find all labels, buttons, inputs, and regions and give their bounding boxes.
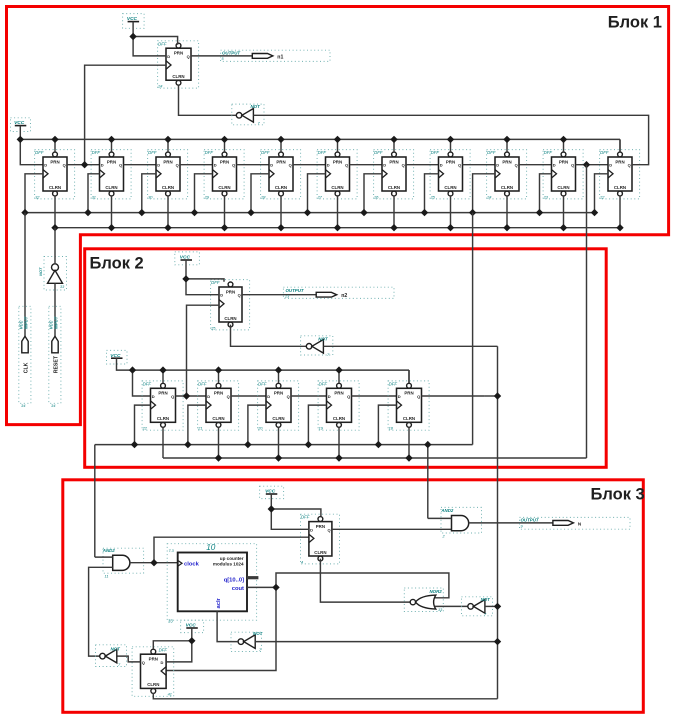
svg-text:11: 11 <box>105 575 109 579</box>
svg-text:PRN: PRN <box>559 159 568 164</box>
svg-text:DFF: DFF <box>92 150 101 155</box>
wire: NOT N3 input from Q17 <box>323 345 497 347</box>
junction: PRN rail Block2 at DFF14 <box>215 366 222 373</box>
svg-text:D: D <box>270 163 273 168</box>
svg-text:23: 23 <box>284 295 290 299</box>
wire: Q9 to D10 <box>519 164 552 166</box>
svg-text:Q: Q <box>287 394 290 399</box>
input pin CLK <box>19 306 31 408</box>
svg-text:NOT: NOT <box>481 597 491 602</box>
svg-text:DFF: DFF <box>318 150 327 155</box>
junction: AND2 A1 output node <box>150 559 157 566</box>
svg-text:PRN: PRN <box>502 159 511 164</box>
svg-text:24: 24 <box>157 84 163 89</box>
wire: PRN stub DFF15 <box>278 370 280 383</box>
svg-text:D: D <box>398 394 401 399</box>
svg-text:D: D <box>214 163 217 168</box>
svg-text:PRN: PRN <box>274 391 283 396</box>
junction: CLRN rail Block2 at DFF15 <box>275 454 282 461</box>
junction: Q17 net at NOT N5 <box>494 603 501 610</box>
svg-text:NOT: NOT <box>318 337 328 342</box>
svg-text:34: 34 <box>51 403 56 408</box>
wire: D1 feed from VCC <box>20 139 43 164</box>
junction: clock rail at DFF9 <box>469 209 476 216</box>
wire: cout branch down to DFF20 clock <box>166 587 276 670</box>
wire: Q3 to D4 <box>180 164 213 166</box>
svg-text:CLK: CLK <box>24 362 30 373</box>
junction: PRN rail at DFF10 <box>560 136 567 143</box>
wire: Q7 to D8 <box>406 164 439 166</box>
junction: PRN rail Block2 at DFF16 <box>335 366 342 373</box>
wire: VCC V6 to PRN of DFF20 <box>153 641 192 649</box>
junction: PRN rail at DFF8 <box>447 136 454 143</box>
wire: clock feed DFF10 <box>540 174 552 213</box>
svg-text:Q: Q <box>187 54 190 59</box>
wire: Q4 to D5 <box>237 164 270 166</box>
junction: clock rail at DFF11 <box>591 209 598 216</box>
svg-text:Q: Q <box>417 394 420 399</box>
svg-text:n1: n1 <box>277 54 283 60</box>
flip-flop DFF10 (Block1 row) <box>543 150 584 200</box>
flip-flop DFF5 (Block1 row) <box>260 150 301 200</box>
junction: CLRN rail Block2 at DFF16 <box>335 454 342 461</box>
wire: VCC V5 to D of DFF19 <box>271 509 309 529</box>
svg-text:D: D <box>327 163 330 168</box>
inverter N4 (Block3 center, drives counter aclr) <box>231 631 263 652</box>
junction: VCC V6 node <box>188 637 195 644</box>
wire: clock feed DFF15 <box>248 405 266 445</box>
wire: Q13 to D14 <box>176 395 207 397</box>
svg-text:clock: clock <box>184 562 200 568</box>
svg-text:CLRN: CLRN <box>172 74 184 79</box>
junction: VCC V2 node <box>129 33 136 40</box>
svg-text:NOR2: NOR2 <box>430 589 443 594</box>
inverter N6 (Block3 bottom-left) <box>96 645 127 667</box>
wire: DFF18 clock from Q13 <box>187 305 220 396</box>
power VCC V3 (feeds DFF18) <box>175 252 200 279</box>
wire: CLRN stub DFF5 <box>280 196 282 228</box>
wire: CLRN stub DFF13 <box>162 427 164 458</box>
svg-text:PRN: PRN <box>446 159 455 164</box>
wire: PRN rail Block2 (VCC net) <box>133 370 410 383</box>
svg-text:q[10..0]: q[10..0] <box>224 577 244 583</box>
wire: VCC V6 to D of DFF20 <box>166 641 192 662</box>
wire: PRN stub DFF11 <box>619 139 621 152</box>
junction: CLRN rail Block2 at DFF17 <box>405 454 412 461</box>
junction: clock rail Block2 at DFF13 <box>131 441 138 448</box>
wire: DFF18 CLRN to NOT N3 output <box>231 325 307 347</box>
svg-text:Блок 3: Блок 3 <box>591 486 645 504</box>
wire: DFF20 CLRN from Q17 net <box>153 693 497 699</box>
wire: AND2 A2 output to pin N <box>469 522 553 524</box>
wire: clock feed DFF9 <box>473 174 495 213</box>
svg-text:Q: Q <box>289 163 292 168</box>
wire: CLRN rail Block1 <box>55 227 620 229</box>
wire: clock feed DFF3 <box>142 174 156 213</box>
flip-flop DFF19 (Block3 top) <box>301 514 340 564</box>
junction: CLRN rail at DFF5 <box>277 224 284 231</box>
svg-text:DFF: DFF <box>258 381 267 386</box>
svg-text:D: D <box>220 293 223 298</box>
svg-text:DFF: DFF <box>487 150 496 155</box>
svg-text:20: 20 <box>257 426 263 431</box>
svg-text:PRN: PRN <box>50 159 59 164</box>
junction: VCC V1 / PRN rail / D1 <box>17 136 24 143</box>
svg-text:D: D <box>267 394 270 399</box>
wire: Q10 net descent (x=586.5) to Block2 CLRN rail <box>586 165 588 458</box>
svg-text:D: D <box>383 163 386 168</box>
svg-text:Q: Q <box>227 394 230 399</box>
wire: PRN stub DFF5 <box>280 139 282 152</box>
flip-flop DFF17 (Block2 row) <box>388 381 429 431</box>
junction: clock rail Block2 at DFF15 <box>244 441 251 448</box>
svg-text:Q: Q <box>142 660 145 665</box>
flip-flop DFF3 (Block1 row) <box>148 150 188 200</box>
flip-flop DFF14 (Block2 row) <box>197 381 239 431</box>
output pin n2 <box>242 287 394 299</box>
nor gate NOR1 (NOR2, mirrored, drives DFF19 CLRN) <box>404 588 443 612</box>
wire: Q2 to D3 <box>124 164 157 166</box>
svg-text:DFF: DFF <box>148 150 157 155</box>
svg-text:PRN: PRN <box>404 391 413 396</box>
block border: Блок 1 (L-shape) <box>7 7 669 425</box>
svg-text:D: D <box>207 394 210 399</box>
wire: Q6 to D7 <box>350 164 383 166</box>
and gate A2 (AND2, Block3 right, drives output) <box>440 507 481 538</box>
wire: D feed DFF13 from VCC <box>133 370 151 396</box>
junction: clock rail at DFF1 <box>21 209 28 216</box>
svg-text:CLRN: CLRN <box>614 185 626 190</box>
svg-text:Q: Q <box>232 163 235 168</box>
svg-text:CLRN: CLRN <box>275 185 287 190</box>
svg-text:10: 10 <box>206 543 216 552</box>
junction: clock rail Block2 at DFF17 <box>375 441 382 448</box>
svg-text:DFF: DFF <box>35 150 44 155</box>
wire: NOT N1 input from Q11 <box>253 115 648 164</box>
wire: CLRN stub DFF9 <box>506 196 508 228</box>
svg-text:D: D <box>157 163 160 168</box>
svg-text:Q: Q <box>63 163 66 168</box>
svg-text:Q: Q <box>345 163 348 168</box>
wire: clock feed DFF17 <box>378 405 396 445</box>
svg-text:DFF: DFF <box>301 515 310 520</box>
svg-text:RESET: RESET <box>54 355 60 373</box>
svg-text:Q: Q <box>571 163 574 168</box>
junction: clock rail at DFF5 <box>247 209 254 216</box>
svg-text:22: 22 <box>142 426 148 431</box>
svg-text:NOT: NOT <box>38 267 43 276</box>
junction: CLRN rail at DFF7 <box>390 224 397 231</box>
svg-text:DFF: DFF <box>143 381 152 386</box>
wire: CLK net descent (x=472.6) from DFF9 clock into Block2 clock rail <box>472 213 474 445</box>
wire: VCC V2 to PRN of DFF12 <box>133 37 178 45</box>
wire: PRN stub DFF2 <box>111 139 113 152</box>
wire: clock rail left end descent to Block3 (x=94.8) <box>94 445 96 557</box>
svg-text:CLRN: CLRN <box>49 185 61 190</box>
svg-text:CLRN: CLRN <box>333 416 345 421</box>
wire: RESET to NOT N2 input <box>54 283 56 336</box>
junction: clock rail at DFF6 <box>304 209 311 216</box>
flip-flop DFF20 (Block3 bottom, mirrored) <box>132 647 174 697</box>
junction: PRN rail at DFF2 <box>108 136 115 143</box>
svg-text:Блок 2: Блок 2 <box>90 254 144 272</box>
wire: Q17 node riser/descent (x=497.5) <box>422 346 498 699</box>
junction: CLRN rail at DFF4 <box>221 224 228 231</box>
svg-text:NOT: NOT <box>251 104 261 109</box>
svg-text:CLRN: CLRN <box>157 416 169 421</box>
wire: clock feed DFF8 <box>425 174 439 213</box>
wire: PRN stub DFF1 <box>54 139 56 152</box>
svg-text:PRN: PRN <box>174 51 183 56</box>
counter U10 (lpm up counter modulus 400) <box>167 543 256 623</box>
junction: VCC V3 node <box>182 275 189 282</box>
wire: Q8 to D9 <box>463 164 496 166</box>
junction: PRN rail at DFF6 <box>334 136 341 143</box>
svg-text:Q: Q <box>515 163 518 168</box>
wire: PRN stub DFF7 <box>393 139 395 152</box>
svg-text:D: D <box>152 394 155 399</box>
svg-text:PRN: PRN <box>149 657 158 662</box>
svg-text:PRN: PRN <box>226 289 235 294</box>
svg-text:D: D <box>496 163 499 168</box>
junction: clock rail at DFF8 <box>421 209 428 216</box>
junction: CLRN rail Block2 at DFF14 <box>215 454 222 461</box>
svg-text:33: 33 <box>168 619 173 624</box>
flip-flop DFF16 (Block2 row) <box>318 381 359 431</box>
wire: VCC V5 to PRN of DFF19 <box>271 509 321 516</box>
svg-text:CLRN: CLRN <box>388 185 400 190</box>
flip-flop DFF6 (Block1 row) <box>317 150 358 200</box>
junction: PRN rail at DFF7 <box>390 136 397 143</box>
wire: cout to junction <box>247 586 276 588</box>
svg-text:DFF: DFF <box>198 381 207 386</box>
wire: DFF12 clock from Q1 <box>85 65 166 165</box>
wire: NOR1 lower input from NOT N5 <box>435 605 468 607</box>
svg-text:D: D <box>161 660 164 665</box>
flip-flop DFF13 (Block2 row) <box>142 381 184 431</box>
inverter N1 (Block1 top, feedback from Q11) <box>232 104 264 125</box>
junction: PRN rail Block2 at DFF15 <box>275 366 282 373</box>
junction: PRN rail at DFF5 <box>277 136 284 143</box>
wire label tick on CLK tap <box>425 466 429 470</box>
junction: PRN rail at DFF9 <box>503 136 510 143</box>
junction: CLRN rail at DFF9 <box>503 224 510 231</box>
svg-text:INPUT: INPUT <box>23 316 28 329</box>
wire: VCC V3 to PRN of DFF18 <box>186 279 224 282</box>
svg-text:aclr: aclr <box>216 597 222 608</box>
wire: CLRN stub DFF6 <box>337 196 339 228</box>
svg-text:23: 23 <box>543 194 549 199</box>
wire: CLK input riser <box>24 213 26 337</box>
svg-text:DFF: DFF <box>431 150 440 155</box>
wire: clock feed DFF11 <box>595 174 609 213</box>
wire: Q10 to D11 <box>576 164 609 166</box>
svg-text:27: 27 <box>317 194 323 199</box>
wire: PRN stub DFF16 <box>338 370 340 383</box>
svg-text:PRN: PRN <box>163 159 172 164</box>
svg-text:PRN: PRN <box>333 159 342 164</box>
wire: clock feed DFF7 <box>364 174 382 213</box>
svg-text:PRN: PRN <box>389 159 398 164</box>
wire: AND2 A1 output up to DFF19 clock <box>154 537 309 563</box>
junction: CLRN rail at DFF6 <box>334 224 341 231</box>
svg-text:Q: Q <box>238 293 241 298</box>
wire: cout branch up/right to NOR gate input <box>276 573 449 598</box>
junction: clock rail at DFF3 <box>138 209 145 216</box>
wire: CLRN stub DFF11 <box>619 196 621 228</box>
flip-flop DFF11 (Block1 row) <box>599 150 640 200</box>
svg-text:29: 29 <box>204 194 210 199</box>
svg-text:Q: Q <box>171 394 174 399</box>
svg-text:D: D <box>440 163 443 168</box>
flip-flop DFF1 (Block1 row) <box>35 150 75 200</box>
wire: PRN stub DFF17 <box>408 370 410 383</box>
wire: PRN stub DFF8 <box>450 139 452 152</box>
svg-text:D: D <box>310 527 313 532</box>
svg-text:CLRN: CLRN <box>162 185 174 190</box>
svg-text:DFF: DFF <box>374 150 383 155</box>
wire: CLRN stub DFF8 <box>450 196 452 228</box>
svg-text:D: D <box>553 163 556 168</box>
wire: DFF12 CLRN to NOT N1 output <box>179 85 237 115</box>
svg-text:DFF: DFF <box>158 41 167 46</box>
power VCC V4 (feeds PRN rail Block2) <box>107 350 133 370</box>
svg-text:AND2: AND2 <box>440 508 454 513</box>
junction: PRN rail at DFF1 <box>51 136 58 143</box>
junction: Q17 net at NOT N4 <box>494 638 501 645</box>
wire: CLRN rail Block2 (Q10 net) <box>163 457 587 459</box>
wire: PRN stub DFF14 <box>218 370 220 383</box>
wire: CLK into AND2 A1 top input <box>95 556 113 558</box>
svg-text:7.3: 7.3 <box>169 549 175 553</box>
power VCC V2 (top, feeds DFF12) <box>123 14 145 37</box>
svg-text:OUTPUT: OUTPUT <box>521 518 539 523</box>
svg-text:Q: Q <box>628 163 631 168</box>
junction: Q1 wire tap for DFF12 clock <box>81 161 88 168</box>
svg-text:CLRN: CLRN <box>501 185 513 190</box>
wire: CLRN stub DFF4 <box>224 196 226 228</box>
junction: Q13 wire tap for DFF18 clock <box>183 392 190 399</box>
output pin n1 <box>191 50 330 61</box>
svg-text:31: 31 <box>92 194 96 199</box>
wire: Q5 to D6 <box>293 164 326 166</box>
junction: CLRN rail at DFF8 <box>447 224 454 231</box>
block border: Блок 2 <box>85 249 607 467</box>
wire: DFF19 Q to AND2 A2 input <box>332 528 452 530</box>
svg-text:DFF: DFF <box>159 647 168 652</box>
wire: PRN stub DFF3 <box>167 139 169 152</box>
wire: PRN stub DFF10 <box>563 139 565 152</box>
svg-text:CLRN: CLRN <box>314 550 326 555</box>
wire: clock rail Block2 <box>95 444 473 446</box>
svg-text:DFF: DFF <box>389 381 398 386</box>
input pin RESET <box>49 306 61 408</box>
wire: clock feed DFF6 <box>308 174 326 213</box>
wire: clock feed DFF16 <box>308 405 326 445</box>
svg-text:CLRN: CLRN <box>444 185 456 190</box>
wire: VCC V2 to D of DFF12 <box>133 37 166 56</box>
wire: Q15 to D16 <box>291 395 327 397</box>
svg-text:CLRN: CLRN <box>403 416 415 421</box>
svg-text:D: D <box>167 54 170 59</box>
flip-flop DFF2 (Block1 row) <box>91 150 131 200</box>
svg-text:28: 28 <box>260 194 266 199</box>
wire: AND2 A1 output to counter clock <box>130 562 178 564</box>
wire: CLRN stub DFF10 <box>563 196 565 228</box>
wire: CLRN stub DFF2 <box>111 196 113 228</box>
wire: clock feed DFF4 <box>195 174 213 213</box>
svg-text:NOT: NOT <box>111 646 121 651</box>
svg-text:Блок 1: Блок 1 <box>608 14 662 32</box>
wire: CLRN stub DFF17 <box>408 427 410 458</box>
wire: PRN stub DFF9 <box>506 139 508 152</box>
wire: CLRN stub DFF16 <box>338 427 340 458</box>
svg-text:25: 25 <box>210 325 216 330</box>
svg-text:DFF: DFF <box>319 381 328 386</box>
svg-text:CLRN: CLRN <box>557 185 569 190</box>
wire: CLRN stub DFF15 <box>278 427 280 458</box>
junction: PRN rail at DFF3 <box>164 136 171 143</box>
wire: DFF19 CLRN from NOR output <box>320 559 410 603</box>
wire: PRN stub DFF13 <box>162 370 164 383</box>
svg-text:VCC: VCC <box>19 319 24 329</box>
wire: clock feed DFF2 <box>88 174 100 213</box>
junction: CLRN rail at DFF2 <box>108 224 115 231</box>
svg-text:AND2: AND2 <box>102 548 116 553</box>
svg-text:VCC: VCC <box>49 319 54 329</box>
wire: NOT N4 input from Q17 net <box>255 641 497 643</box>
svg-text:INPUT: INPUT <box>53 316 58 329</box>
junction: clock rail at DFF2 <box>84 209 91 216</box>
svg-text:41: 41 <box>168 692 172 697</box>
wire: VCC V3 to D of DFF18 <box>186 279 219 295</box>
inverter N5 (Block3 east, from Q17 net) <box>462 597 493 617</box>
wire: clock feed DFF14 <box>188 405 206 445</box>
svg-text:PRN: PRN <box>276 159 285 164</box>
svg-text:CLRN: CLRN <box>331 185 343 190</box>
svg-text:up counter: up counter <box>220 556 244 561</box>
wire: CLRN stub DFF7 <box>393 196 395 228</box>
junction: VCC V5 node <box>268 505 275 512</box>
wire: q[10..0] bus stub <box>247 576 258 579</box>
svg-text:Q: Q <box>176 163 179 168</box>
wire: CLRN stub DFF3 <box>167 196 169 228</box>
svg-text:DFF: DFF <box>211 280 220 285</box>
junction: CLRN rail at DFF3 <box>164 224 171 231</box>
svg-text:cout: cout <box>232 586 244 592</box>
wire: CLRN stub DFF1 <box>54 196 56 228</box>
svg-text:22: 22 <box>599 194 605 199</box>
svg-text:25: 25 <box>430 194 436 199</box>
junction: clock rail Block2 at DFF16 <box>305 441 312 448</box>
junction: CLRN rail at DFF10 <box>560 224 567 231</box>
wire: CLK tap down to Block3 (x=427.8) <box>427 445 429 519</box>
and gate A1 (AND2, Block3 left) <box>102 548 144 578</box>
junction: PRN rail at DFF4 <box>221 136 228 143</box>
inverter N3 (Block2, from Q17) <box>301 336 333 357</box>
flip-flop DFF9 (Block1 row) <box>486 150 526 200</box>
svg-text:21: 21 <box>197 426 202 431</box>
power VCC V1 (left, feeds PRN rail Block1) <box>11 118 31 140</box>
wire: clock feed DFF13 <box>135 405 151 445</box>
flip-flop DFF15 (Block2 row) <box>257 381 299 431</box>
svg-text:Q: Q <box>347 394 350 399</box>
block border: Блок 3 <box>63 480 645 713</box>
wire: DFF20 Q to NOT N6 input <box>117 656 141 662</box>
power VCC V6 (feeds DFF20) <box>181 620 204 641</box>
wire: CLK into AND2 A2 top input <box>428 517 452 519</box>
svg-text:Q: Q <box>119 163 122 168</box>
